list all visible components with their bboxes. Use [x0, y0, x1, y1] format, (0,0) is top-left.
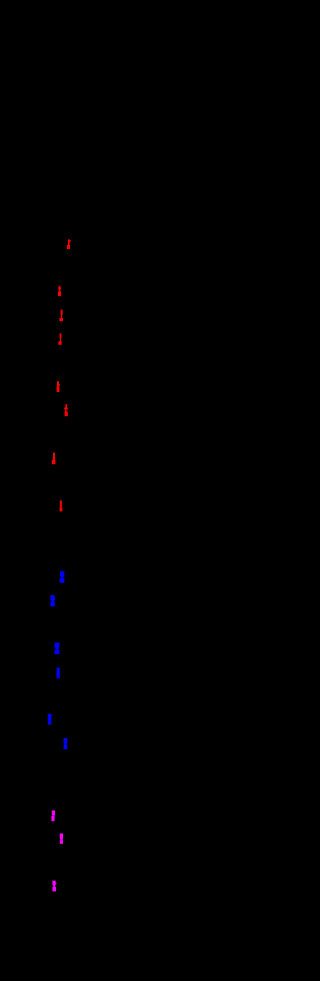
atom label NH (N2) — [50, 595, 54, 606]
atom label O (O3, ether) — [59, 310, 63, 322]
atom label O (O8) — [60, 500, 63, 511]
atom label N (N5) — [48, 714, 52, 725]
atom label P (P2) — [60, 833, 63, 843]
atom label P (P1) — [51, 810, 55, 821]
atom label N (N6) — [64, 738, 68, 749]
atom label NH (N1) — [60, 571, 65, 583]
atom label N (N4) — [57, 668, 60, 679]
atom label NH (N3) — [55, 643, 60, 655]
atom label O (O4) — [58, 333, 61, 345]
atom label O (O7) — [52, 453, 56, 465]
atom label P (P3, S-shaped) — [52, 881, 56, 892]
atom label OH (O6) — [64, 404, 68, 416]
atom label OH (O1, top hydroxyl) — [67, 239, 71, 249]
atom label OH (O2) — [58, 286, 61, 296]
atom label O (O5) — [57, 381, 60, 392]
